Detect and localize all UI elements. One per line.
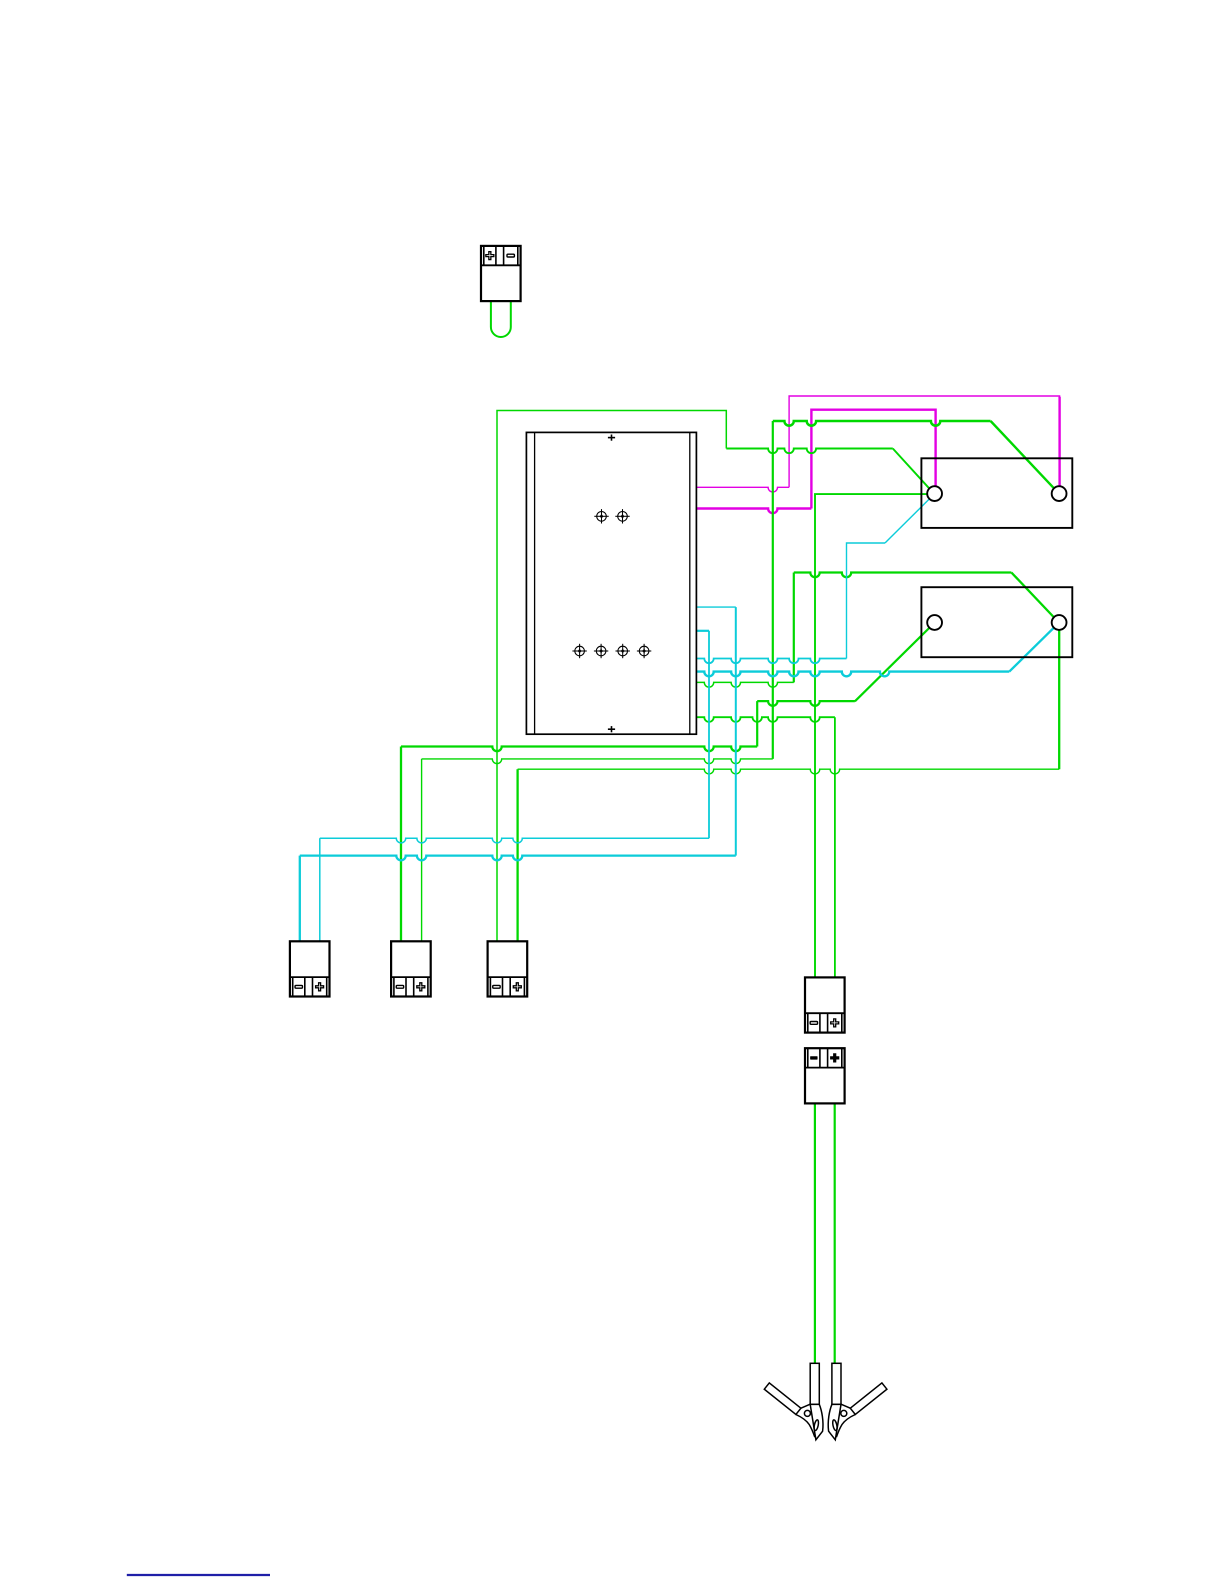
actuator connector J2 (391, 941, 431, 996)
wire cyan C2: module pin to connector J1-plus via upper bus (320, 631, 709, 942)
wire green G1: jumper loop on program connector J0 (491, 301, 511, 337)
relay K1 box (921, 458, 1072, 528)
wire magenta M2: module pin B to relay K1 left terminal (697, 410, 936, 514)
inline power connector J4 (805, 977, 845, 1032)
program connector J0 (+/- jumpered) (481, 246, 521, 301)
wire green G4: relay K1 left terminal to inline connector J4-minus (815, 494, 927, 977)
module mounting hole H1 (594, 509, 608, 523)
module mounting hole H6 (637, 644, 651, 658)
wire green G6: connector J2-minus to relay K2 left terminal (401, 628, 930, 942)
wire green G10: inline connector J5 to battery clamp positive (834, 1104, 836, 1364)
actuator connector J1 (290, 941, 330, 996)
module mounting hole H4 (594, 644, 608, 658)
wire green G3: connector J2-plus up to relay K1 right terminal (422, 421, 1055, 941)
relay K2 left terminal (927, 615, 942, 630)
inline power connector J5 (805, 1048, 845, 1103)
wire green G9: inline connector J5 to battery clamp negative (814, 1104, 816, 1364)
module mounting hole H5 (616, 644, 630, 658)
module polarity mark + bottom (608, 726, 615, 732)
wire cyan C1: module pin to connector J1-minus via lower bus (300, 607, 736, 941)
wire green G2: long loop from connector J3-minus up over module to relay K1 left terminal (497, 411, 930, 942)
module mounting hole H3 (572, 644, 586, 658)
relay K1 right terminal (1052, 486, 1067, 501)
wire cyan C3: module pin to relay K1 left terminal (697, 499, 929, 663)
wire green G7: connector J3-plus to relay K2 right terminal (lower route) (518, 630, 1060, 942)
control module U1 (526, 432, 696, 734)
module mounting hole H2 (615, 509, 629, 523)
battery clamp negative (764, 1363, 823, 1440)
relay K2 box (921, 587, 1072, 657)
battery clamp positive (828, 1363, 887, 1440)
relay K1 left terminal (927, 486, 942, 501)
wire green G5: module pin to relay K2 right terminal (upper route) (697, 573, 1054, 688)
wire cyan C4: module pin to relay K2 right terminal (697, 628, 1054, 677)
wire green G8: module pin to inline connector J4-plus (697, 717, 835, 977)
footer rule (127, 1574, 270, 1576)
wire magenta M1: module pin A to relay K1 right terminal (697, 396, 1060, 492)
actuator connector J3 (488, 941, 528, 996)
module polarity mark + top (608, 435, 615, 441)
relay K2 right terminal (1052, 615, 1067, 630)
